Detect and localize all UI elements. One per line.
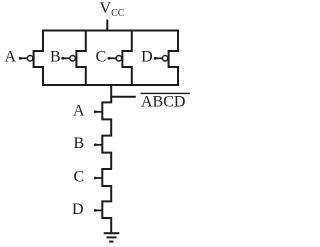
gate wire end dot (NMOS A) <box>94 110 97 113</box>
PMOS Q4 gate wire <box>155 57 162 59</box>
svg-text:A: A <box>73 102 85 119</box>
output node wire to label <box>111 96 135 98</box>
ground bar 2 <box>107 236 117 238</box>
PMOS switch Q4 (input D) <box>169 31 178 86</box>
svg-text:D: D <box>141 49 153 66</box>
gate wire end dot (NMOS C) <box>94 177 97 180</box>
ground bar 3 <box>109 241 113 243</box>
PMOS Q3 gate wire <box>109 57 116 59</box>
NMOS Q8 gate wire (D) <box>95 209 102 211</box>
svg-text:C: C <box>73 169 84 186</box>
gate wire end dot (PMOS A) <box>19 57 22 60</box>
svg-text:B: B <box>50 49 61 66</box>
output rail (PMOS common drain) <box>43 84 178 86</box>
svg-text:D: D <box>72 201 84 218</box>
ground bar 1 <box>104 232 120 234</box>
gate wire end dot (PMOS B) <box>61 57 64 60</box>
gate wire end dot (NMOS D) <box>94 209 97 212</box>
PMOS switch Q3 (input C) <box>122 31 131 86</box>
PMOS switch Q2 (input B) <box>76 31 85 86</box>
NMOS Q6 gate wire (B) <box>95 144 102 146</box>
PMOS Q4 gate bubble <box>162 56 168 62</box>
svg-text:C: C <box>96 49 107 66</box>
svg-text:VCC: VCC <box>100 0 125 19</box>
Vcc rail (top) <box>43 30 178 32</box>
Vcc stub wire <box>106 21 108 31</box>
svg-text:A: A <box>5 49 17 66</box>
gate wire end dot (NMOS B) <box>94 143 97 146</box>
NMOS Q7 gate wire (C) <box>95 177 102 179</box>
NMOS series chain: switches Q5-Q8 (inputs A,B,C,D) <box>102 85 111 233</box>
PMOS Q2 gate wire <box>62 57 69 59</box>
PMOS Q2 gate bubble <box>70 56 76 62</box>
NMOS Q5 gate wire (A) <box>95 111 102 113</box>
gate wire end dot (PMOS C) <box>108 57 111 60</box>
PMOS switch Q1 (input A) <box>34 31 43 86</box>
svg-text:B: B <box>73 135 84 152</box>
svg-text:ABCD: ABCD <box>141 93 185 110</box>
PMOS Q3 gate bubble <box>116 56 122 62</box>
PMOS Q1 gate wire <box>20 57 27 59</box>
PMOS Q1 gate bubble <box>27 56 32 62</box>
gate wire end dot (PMOS D) <box>154 57 157 60</box>
output label overline <box>141 92 190 94</box>
